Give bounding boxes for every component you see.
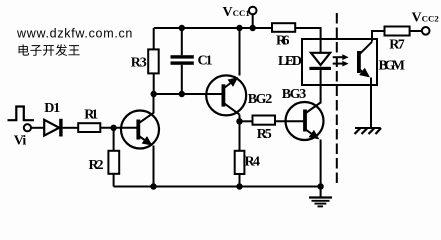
svg-text:R2: R2 [89,158,104,173]
svg-text:BGM: BGM [379,59,406,74]
svg-text:D1: D1 [44,101,60,116]
svg-text:VCC1: VCC1 [223,5,250,20]
svg-text:LED: LED [278,54,302,69]
svg-text:C1: C1 [198,54,213,69]
svg-text:BG2: BG2 [248,92,273,107]
svg-text:R1: R1 [84,107,98,122]
svg-text:R3: R3 [131,56,147,71]
svg-text:R7: R7 [389,38,405,53]
svg-text:R6: R6 [276,34,290,49]
svg-text:BG3: BG3 [282,87,307,102]
svg-text:VCC2: VCC2 [412,11,440,26]
svg-text:R4: R4 [245,155,261,170]
svg-text:www.dzkfw.com.cn: www.dzkfw.com.cn [16,26,133,40]
svg-text:R5: R5 [257,127,272,142]
svg-text:Vi: Vi [14,134,27,149]
